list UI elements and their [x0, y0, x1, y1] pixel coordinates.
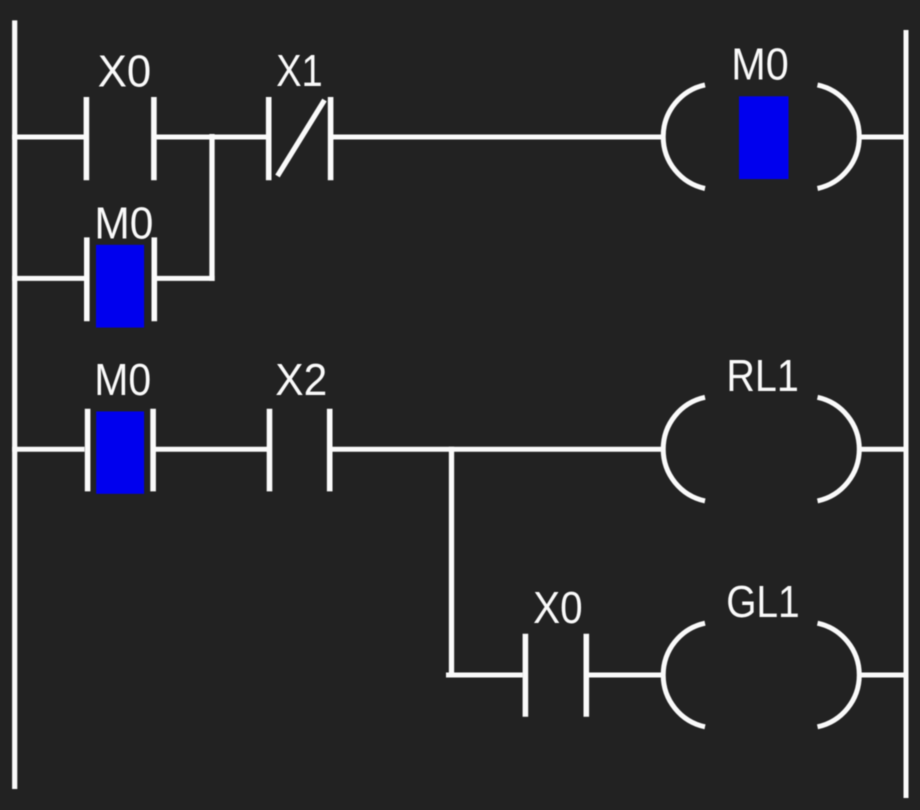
svg-text:X2: X2 — [275, 354, 327, 405]
svg-text:X0: X0 — [98, 45, 152, 96]
svg-text:RL1: RL1 — [726, 350, 799, 401]
svg-text:X0: X0 — [533, 582, 583, 633]
svg-text:X1: X1 — [276, 45, 323, 96]
svg-text:GL1: GL1 — [726, 576, 800, 627]
svg-text:M0: M0 — [94, 198, 153, 249]
svg-text:M0: M0 — [731, 38, 789, 89]
svg-text:M0: M0 — [94, 354, 151, 405]
